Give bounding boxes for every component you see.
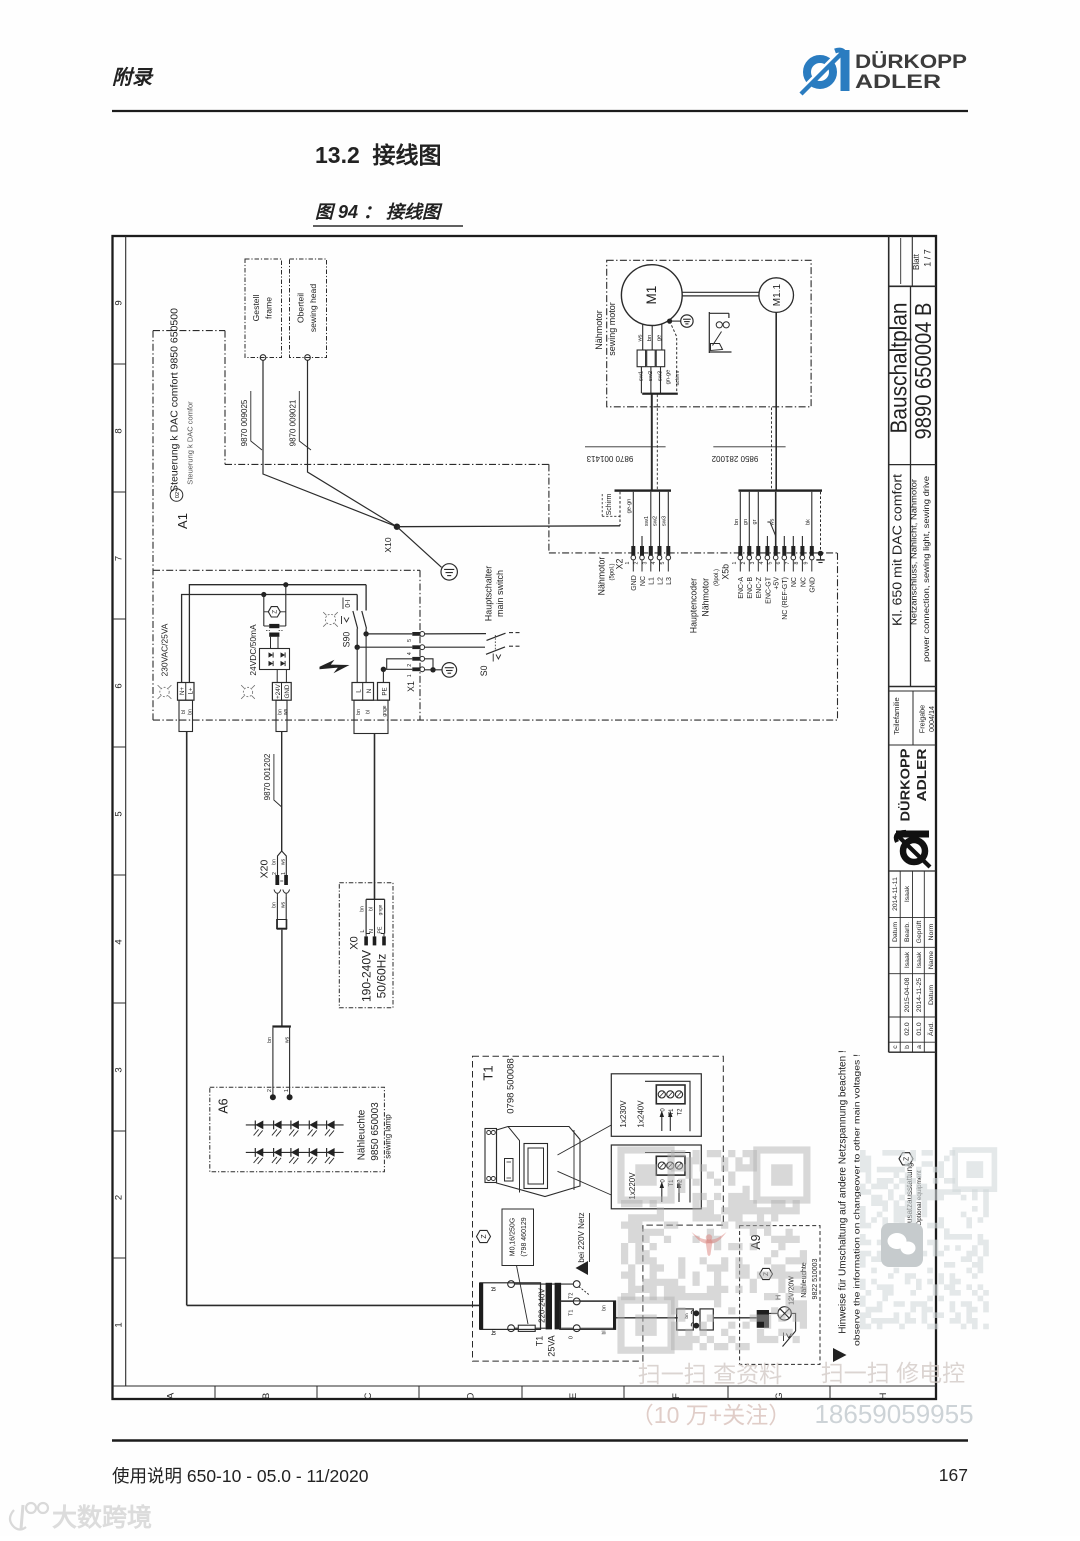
connector X20: [258, 851, 288, 885]
label S0: [479, 665, 489, 676]
wires X1 to S0: [425, 634, 486, 648]
svg-text:13.2 接线图: 13.2 接线图: [315, 142, 442, 168]
svg-text:Schirm: Schirm: [606, 493, 613, 515]
svg-text:NC (REF-GT): NC (REF-GT): [782, 577, 789, 620]
svg-text:Oberteil: Oberteil: [296, 293, 306, 323]
encoder cable M1.1 to X5b: [772, 312, 777, 489]
svg-text:frame: frame: [264, 297, 274, 319]
svg-text:167: 167: [939, 1465, 968, 1485]
label 220-240V: [537, 1287, 546, 1322]
X1 pins: [407, 632, 425, 678]
svg-text:9870 009021: 9870 009021: [288, 399, 297, 446]
labels T1 25VA: [535, 1335, 557, 1356]
label Hauptencoder Nähmotor 9pol X5b: [689, 564, 731, 633]
label A9: [749, 1234, 763, 1249]
ground symbol near X10: [441, 564, 457, 580]
svg-text:Name: Name: [928, 951, 935, 969]
svg-text:X20: X20: [258, 860, 270, 879]
svg-text:schirm: schirm: [675, 371, 681, 386]
svg-text:C: C: [363, 1392, 374, 1399]
svg-text:附录: 附录: [112, 66, 154, 89]
svg-text:sw2: sw2: [653, 516, 659, 526]
svg-text:ws: ws: [283, 708, 289, 715]
svg-text:1: 1: [281, 872, 287, 875]
svg-text:sw1: sw1: [644, 516, 650, 526]
cable sleeve X1: [354, 700, 388, 733]
frame column letters A-H: [165, 1386, 889, 1400]
optional lamp icon 230VAC: [158, 685, 172, 699]
svg-text:L2: L2: [657, 577, 664, 585]
svg-text:T1: T1: [535, 1336, 545, 1347]
svg-text:ADLER: ADLER: [914, 748, 929, 802]
svg-text:bn: bn: [356, 709, 362, 715]
svg-text:Isaak: Isaak: [904, 885, 911, 902]
svg-text:gr: gr: [752, 519, 758, 524]
rectifier bridge: [260, 637, 290, 683]
lamp cable: [281, 930, 283, 1026]
svg-text:L+: L+: [187, 687, 194, 694]
svg-text:0004/14: 0004/14: [927, 706, 936, 732]
A9 terminal block: [757, 1310, 778, 1328]
red logo in QR: [692, 1232, 727, 1256]
motor box dashed border: [607, 260, 811, 407]
svg-text:sw3: sw3: [662, 516, 668, 526]
svg-text:A: A: [165, 1392, 176, 1399]
label A1 Steuerung k DAC comfort 9850 650500: [169, 308, 195, 529]
svg-text:N: N: [369, 929, 375, 933]
wire Oberteil to X10: [308, 360, 397, 526]
svg-text:a: a: [916, 1045, 923, 1049]
svg-text:Steuerung k DAC comfort 9850 6: Steuerung k DAC comfort 9850 650500: [169, 308, 181, 492]
ground symbol at X1: [442, 663, 457, 678]
title block Duerkopp Adler logo: [889, 748, 936, 871]
suppressor Z hexagon: [264, 607, 286, 617]
X2 pin labels GND NC L1 L2 L3: [631, 575, 673, 591]
svg-text:ENC-B: ENC-B: [747, 577, 754, 599]
svg-text:1: 1: [284, 1089, 290, 1092]
svg-text:2: 2: [272, 872, 278, 875]
lamp supply cable: [281, 732, 283, 852]
title block Teilefamilie / Freigabe: [889, 691, 936, 745]
svg-text:sewing head: sewing head: [308, 284, 318, 332]
svg-text:9870 001202: 9870 001202: [263, 753, 272, 800]
svg-text:9822 510003: 9822 510003: [812, 1258, 819, 1299]
svg-text:0798 500088: 0798 500088: [506, 1058, 517, 1113]
wire to A9: [713, 1317, 756, 1319]
svg-text:3: 3: [643, 561, 649, 564]
terminal box X1 L N: [352, 647, 374, 700]
svg-text:X2: X2: [615, 559, 625, 570]
svg-text:9870 009025: 9870 009025: [240, 399, 249, 446]
svg-text:（10 万+关注）: （10 万+关注）: [631, 1402, 791, 1428]
label Nähmotor 5pol X2: [596, 557, 624, 596]
svg-text:2: 2: [267, 1089, 273, 1092]
page number 167: [939, 1465, 968, 1485]
X2 pins: [625, 546, 671, 572]
svg-text:Datum: Datum: [928, 985, 935, 1005]
svg-text:bn: bn: [734, 519, 740, 525]
svg-text:5: 5: [660, 561, 666, 564]
label 0-I and S90: [341, 598, 352, 648]
title block border: [889, 236, 936, 1052]
wire X1 pin row to earth: [425, 659, 442, 673]
ground symbol at motor M1: [681, 315, 693, 327]
svg-text:ADLER: ADLER: [855, 71, 941, 93]
X20 mating sockets: [274, 890, 290, 898]
label Nähmotor sewing motor: [594, 302, 617, 356]
figure caption 图 94 : 接线图: [313, 202, 463, 226]
svg-text:使用说明 650-10 - 05.0 - 11/2020: 使用说明 650-10 - 05.0 - 11/2020: [112, 1466, 369, 1486]
drawing frame outer border: [113, 236, 937, 1399]
wires S90 to X1 pins: [357, 634, 412, 647]
section title 13.2 接线图: [315, 142, 442, 168]
wires X20 to lamp cable: [272, 897, 288, 930]
svg-text:bn: bn: [272, 902, 278, 908]
svg-text:Z: Z: [271, 610, 278, 614]
lamp switch wire: [783, 1313, 796, 1346]
watermark 扫一扫 查资料: [638, 1361, 782, 1387]
svg-text:24VDC/50mA: 24VDC/50mA: [248, 624, 258, 676]
switch S90 wires down: [357, 585, 366, 611]
motor M1: [621, 265, 682, 326]
svg-text:ENC-Z: ENC-Z: [756, 576, 763, 598]
svg-text:+24V: +24V: [275, 683, 282, 698]
connector X2 bar: [615, 489, 672, 491]
watermark logo 100: [10, 1503, 48, 1530]
svg-text:9850 281002: 9850 281002: [711, 454, 758, 463]
svg-text:L3: L3: [666, 577, 673, 585]
svg-text:power connection, sewing light: power connection, sewing light, sewing d…: [921, 476, 931, 662]
X0 pins: [360, 926, 386, 945]
lamp cable split bar: [272, 1025, 291, 1027]
encoder M1.1: [759, 278, 794, 313]
switch S90 blades: [353, 611, 367, 647]
svg-text:扫一扫 查资料: 扫一扫 查资料: [638, 1361, 782, 1387]
motor wires sw1 sw2 sw3: [638, 367, 663, 394]
svg-text:5: 5: [407, 639, 413, 642]
X2 shield pin dashed: [619, 492, 621, 526]
svg-text:L1: L1: [649, 577, 656, 585]
svg-text:50/60Hz: 50/60Hz: [374, 954, 388, 999]
svg-text:ws: ws: [280, 901, 286, 908]
label 230VAC/25VA: [159, 623, 169, 676]
svg-text:T1: T1: [481, 1065, 496, 1080]
header rule: [112, 110, 968, 112]
svg-text:(9pol.): (9pol.): [714, 569, 720, 586]
svg-text:A1: A1: [175, 513, 190, 529]
svg-text:NC: NC: [800, 577, 807, 587]
svg-text:bl: bl: [491, 1287, 497, 1292]
wires to rectifier: [264, 585, 286, 626]
X0 wires: [359, 899, 384, 936]
svg-text:2: 2: [407, 664, 413, 667]
wire X10 to X2 shield: [397, 525, 620, 528]
svg-text:9: 9: [804, 561, 810, 564]
svg-text:7: 7: [114, 556, 125, 561]
terminal box N+ L+: [178, 683, 195, 701]
svg-text:X5b: X5b: [720, 564, 730, 580]
belt pulley icon: [709, 312, 731, 353]
svg-text:Änd.: Änd.: [927, 1022, 935, 1036]
svg-text:ws: ws: [280, 858, 286, 865]
svg-text:18659059955: 18659059955: [814, 1399, 973, 1429]
svg-text:1 / 7: 1 / 7: [923, 249, 933, 267]
svg-text:230VAC/25VA: 230VAC/25VA: [159, 623, 169, 676]
label X1: [406, 681, 416, 692]
title block Kl. 650 mit DAC comfort: [891, 473, 932, 662]
svg-text:9870 001413: 9870 001413: [586, 454, 633, 463]
svg-text:A6: A6: [217, 1098, 231, 1113]
svg-text:Steuerung k DAC comfor: Steuerung k DAC comfor: [186, 401, 195, 485]
svg-text:Z: Z: [903, 1156, 910, 1161]
svg-text:GND: GND: [284, 684, 291, 698]
svg-text:ge-gn: ge-gn: [627, 499, 633, 514]
svg-text:X0: X0: [348, 936, 360, 949]
svg-text:Norm: Norm: [928, 923, 935, 940]
transformer T1 winding bars: [546, 1283, 562, 1330]
svg-text:bn: bn: [188, 709, 194, 715]
label Schirm: [602, 493, 621, 516]
X5b pin labels: [738, 576, 817, 620]
fuse label box M0,16/250G: [502, 1209, 534, 1324]
svg-text:Bearb.: Bearb.: [904, 922, 911, 942]
S90 lamp icon: [323, 612, 349, 627]
node 24V tap L: [261, 582, 288, 597]
svg-text:5: 5: [114, 811, 125, 816]
svg-text:bl: bl: [602, 1330, 608, 1334]
svg-text:bei 220V Netz: bei 220V Netz: [577, 1212, 586, 1262]
svg-text:T1: T1: [568, 1310, 574, 1316]
svg-text:E: E: [568, 1393, 579, 1399]
svg-text:bl: bl: [181, 710, 187, 714]
svg-text:Kl. 650 mit DAC comfort: Kl. 650 mit DAC comfort: [891, 473, 905, 626]
optional hexagon T1: [477, 1230, 491, 1242]
svg-text:1: 1: [407, 674, 413, 677]
svg-text:N: N: [366, 689, 373, 693]
leader lines to voltage boxes: [558, 1125, 612, 1195]
T1 primary connector box: [479, 1281, 541, 1336]
svg-text:9890 650004 B: 9890 650004 B: [910, 303, 936, 440]
QR code watermark left: [621, 1150, 807, 1350]
title block Bauschaltplan: [886, 303, 912, 434]
frame number column line: [125, 236, 127, 1386]
svg-text:Gestell: Gestell: [251, 295, 261, 322]
label T1 0798 500088: [481, 1058, 517, 1113]
svg-text:1: 1: [114, 1322, 125, 1327]
transformer bars 24VDC: [264, 624, 286, 637]
wire X1 N down to box: [365, 634, 367, 683]
frame letter row line: [113, 1385, 937, 1387]
svg-text:gn-ge: gn-ge: [665, 370, 671, 385]
svg-text:T2: T2: [678, 1108, 684, 1116]
A1 power section dashed sub-boundary: [153, 570, 420, 720]
T1 primary wires and fuse: [515, 1284, 574, 1331]
cable label 9870 009025: [240, 391, 262, 450]
svg-text:ge: ge: [657, 335, 663, 341]
svg-text:S90: S90: [341, 632, 351, 648]
svg-text:190-240V: 190-240V: [359, 950, 373, 1002]
main switch S0 blades: [486, 633, 520, 662]
svg-text:bn: bn: [272, 859, 278, 865]
optional lamp icon 24VDC: [241, 685, 255, 699]
svg-text:5: 5: [767, 561, 773, 564]
svg-text:Isaak: Isaak: [916, 951, 923, 968]
node X10: [383, 524, 400, 553]
svg-text:NC: NC: [791, 577, 798, 587]
svg-text:6: 6: [776, 561, 782, 564]
X5b shield dashed wire and ground: [816, 492, 824, 563]
svg-text:L: L: [355, 689, 362, 693]
svg-text:Bauschaltplan: Bauschaltplan: [886, 303, 912, 434]
svg-text:sw1: sw1: [638, 371, 644, 381]
svg-text:Nähmotor: Nähmotor: [700, 578, 710, 617]
cable sleeve 24VDC: [276, 700, 289, 731]
svg-text:observe the information on cha: observe the information on changeover to…: [851, 1054, 861, 1346]
voltage box 1x230V 1x240V: [611, 1074, 701, 1137]
motor wires ws bn ge: [638, 324, 663, 351]
svg-text:25VA: 25VA: [547, 1335, 557, 1356]
title block number 9890 650004 B: [910, 303, 936, 440]
label Hauptschalter main switch: [484, 566, 505, 622]
motor shaft: [682, 292, 759, 296]
LED strings A6: [246, 1121, 344, 1164]
svg-text:L: L: [360, 929, 366, 932]
motor terminal blocks: [637, 350, 665, 367]
wechat icon in QR: [881, 1223, 923, 1267]
watermark 扫一扫 修电控: [821, 1360, 965, 1386]
svg-text:4: 4: [114, 939, 125, 944]
svg-text:gn: gn: [743, 519, 749, 525]
svg-text:G: G: [774, 1392, 785, 1399]
cable label 9850 281002: [711, 447, 786, 463]
lightning bolt symbol: [320, 660, 350, 674]
svg-text:D: D: [466, 1392, 477, 1399]
wire across bottom to T1: [187, 1304, 481, 1306]
svg-text:sw2: sw2: [648, 371, 654, 381]
svg-text:bn: bn: [267, 1037, 273, 1043]
svg-text:gnge: gnge: [378, 904, 383, 915]
labels Nähleuchte 9850 650003 sewing lamp: [357, 1102, 393, 1161]
label X0: [348, 936, 360, 949]
svg-text:DÜRKOPP: DÜRKOPP: [855, 50, 967, 73]
svg-text:02.0: 02.0: [904, 1022, 911, 1035]
svg-text:7: 7: [785, 561, 791, 564]
svg-text:c: c: [892, 1045, 899, 1049]
terminal box X1 PE: [378, 669, 390, 700]
svg-text:sewing lamp: sewing lamp: [384, 1114, 393, 1159]
motor cable to X2: [652, 395, 658, 490]
svg-text:Blatt: Blatt: [912, 253, 921, 270]
voltage box 1x220V: [611, 1145, 701, 1209]
title block revision table: [889, 871, 936, 1052]
svg-text:ENC-GT: ENC-GT: [765, 576, 772, 604]
svg-text:S0: S0: [479, 665, 489, 676]
mains inlet X0 dashed box: [339, 883, 393, 1008]
label bei 220V Netz: [577, 1212, 590, 1262]
supply cable down-left: [186, 732, 188, 1306]
svg-text:1: 1: [732, 561, 738, 564]
wire Gestell to X10: [263, 360, 397, 526]
arrow bei 220V: [576, 1261, 589, 1275]
logo wordmark DÜRKOPP ADLER: [855, 50, 967, 93]
wire N+ to switch: [182, 595, 358, 683]
svg-text:220-240V: 220-240V: [537, 1287, 546, 1322]
svg-text:6: 6: [114, 683, 125, 688]
wire L+ to switch: [189, 585, 366, 683]
svg-text:bn: bn: [602, 1305, 608, 1311]
warning text Hinweise: [837, 1050, 861, 1346]
svg-text:M1: M1: [644, 286, 659, 305]
svg-text:Nähleuchte: Nähleuchte: [357, 1109, 368, 1160]
svg-text:gnge: gnge: [382, 705, 388, 716]
svg-text:Z: Z: [481, 1234, 488, 1239]
lamp circuit wire: [616, 1317, 678, 1319]
svg-text:0-I: 0-I: [345, 599, 352, 607]
svg-text:M0,16/250G: M0,16/250G: [510, 1218, 517, 1257]
svg-text:(798 460129: (798 460129: [521, 1217, 528, 1256]
svg-text:Freigabe: Freigabe: [918, 705, 927, 733]
svg-text:PE: PE: [381, 687, 388, 695]
svg-text:01.0: 01.0: [916, 1022, 923, 1035]
transformer T1 dashed boundary: [473, 1056, 724, 1361]
box Oberteil sewing head: [290, 259, 327, 360]
svg-text:3: 3: [114, 1067, 125, 1072]
svg-text:Netzanschluss, Nählicht, Nähmo: Netzanschluss, Nählicht, Nähmotor: [909, 479, 919, 625]
svg-text:Teilefamilie: Teilefamilie: [892, 697, 901, 735]
svg-text:4: 4: [759, 561, 765, 564]
label 24VDC/50mA: [248, 624, 258, 676]
svg-text:GND: GND: [631, 575, 638, 591]
svg-text:Hinweise für Umschaltung auf a: Hinweise für Umschaltung auf andere Netz…: [837, 1050, 848, 1334]
lamp H 12V/20W: [776, 1258, 820, 1320]
footer text 使用说明: [112, 1466, 369, 1486]
svg-text:8: 8: [114, 428, 125, 433]
svg-text:ws: ws: [284, 1036, 290, 1043]
svg-text:M1.1: M1.1: [772, 284, 783, 307]
T1 secondary box: [560, 1301, 616, 1335]
title block Blatt 1/7: [912, 249, 933, 270]
svg-text:9: 9: [114, 300, 125, 305]
page heading 附录: [112, 66, 154, 89]
svg-text:Datum: Datum: [892, 922, 899, 942]
svg-text:2: 2: [634, 561, 640, 564]
svg-text:sw3: sw3: [657, 371, 663, 381]
legend Zusatzausstattung: [899, 1153, 923, 1233]
frame row numbers 9-1: [113, 300, 126, 1327]
node motor earth junction: [667, 319, 681, 324]
svg-text:main switch: main switch: [495, 570, 505, 617]
T1 tap terminals: [561, 1281, 590, 1339]
svg-text:bl: bl: [369, 907, 375, 911]
lamp unit A6 box: [210, 1087, 385, 1172]
svg-text:PE: PE: [378, 926, 384, 933]
svg-text:N+: N+: [179, 687, 186, 695]
footer rule: [112, 1439, 968, 1441]
watermark 10万+关注: [631, 1402, 791, 1428]
terminal box +24V GND: [272, 683, 291, 701]
box Gestell frame: [245, 259, 282, 360]
optional hexagon A9: [760, 1268, 773, 1279]
svg-text:图 94 ： 接线图: 图 94 ： 接线图: [315, 202, 443, 222]
svg-text:bn: bn: [647, 335, 653, 341]
X0 connector shell: [366, 899, 385, 933]
lamp unit A9 dashed box: [740, 1226, 820, 1365]
controller A1 dashed boundary: [153, 331, 838, 720]
svg-text:Geprüft: Geprüft: [916, 921, 923, 944]
cable sleeve 230VAC: [179, 700, 194, 731]
wire X10 to protective earth: [397, 527, 442, 568]
cable label 9870 001413: [585, 447, 666, 463]
